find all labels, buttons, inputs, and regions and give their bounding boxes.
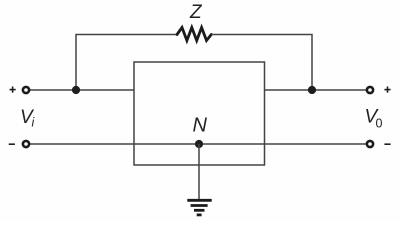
- terminal circle input plus: [23, 87, 29, 93]
- svg-text:i: i: [32, 116, 36, 130]
- minus sign output: [384, 143, 390, 145]
- plus sign output: [384, 87, 390, 93]
- wire top feedback right segment: [211, 35, 312, 91]
- svg-text:0: 0: [376, 117, 383, 131]
- label V0: [365, 107, 383, 131]
- terminal circle input minus: [23, 141, 29, 147]
- wire output top: box to right terminal: [265, 89, 368, 91]
- plus sign input: [10, 87, 16, 93]
- label Vi: [20, 107, 36, 130]
- junction dot center node: [195, 140, 203, 148]
- box network N: [134, 62, 265, 165]
- minus sign input: [9, 143, 15, 145]
- terminal circle output plus: [367, 87, 373, 93]
- wire ground stem: [198, 144, 200, 200]
- wire top feedback left segment: [76, 35, 177, 91]
- junction dot left: [72, 86, 80, 94]
- wire bottom common rail: [29, 143, 367, 145]
- resistor Z zigzag: [177, 28, 211, 41]
- wire input top: left terminal to box: [29, 89, 134, 91]
- terminal circle output minus: [367, 141, 373, 147]
- ground symbol: [187, 200, 211, 215]
- svg-text:N: N: [193, 115, 208, 137]
- junction dot right: [308, 86, 316, 94]
- svg-text:Z: Z: [189, 2, 203, 23]
